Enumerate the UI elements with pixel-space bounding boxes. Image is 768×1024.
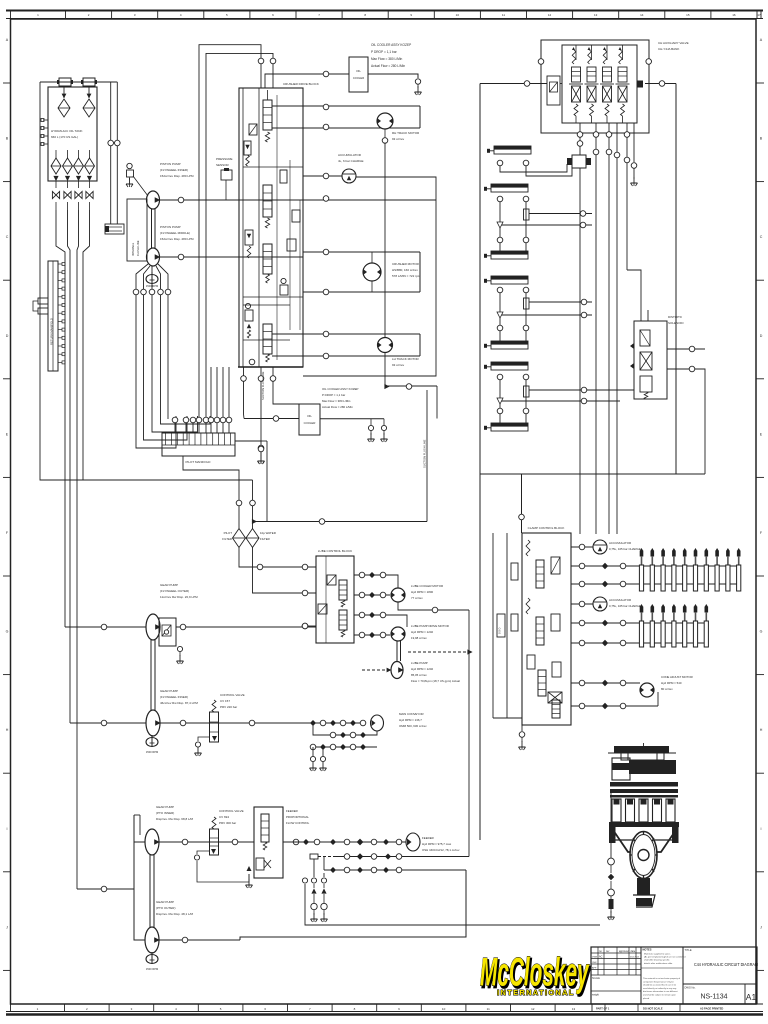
wire: feeder drive rows bbox=[283, 839, 406, 846]
svg-text:DWN: DWN bbox=[592, 957, 598, 959]
wire: distop block feeds bbox=[627, 270, 705, 474]
clamp cylinder row 2 bbox=[639, 604, 708, 647]
svg-text:LH TRACK MOTOR: LH TRACK MOTOR bbox=[392, 357, 420, 361]
solenoid S1 bbox=[249, 124, 257, 135]
wire: clamp block supply drop bbox=[519, 474, 525, 533]
engine speed bell 1500 RPM bbox=[146, 272, 158, 288]
wire: PTO suction loop bbox=[77, 815, 145, 940]
svg-text:H: H bbox=[760, 728, 763, 732]
title block bbox=[591, 947, 757, 1004]
svg-text:LUBE COOLER MOTOR: LUBE COOLER MOTOR bbox=[411, 584, 443, 588]
svg-text:OIL: OIL bbox=[307, 414, 312, 418]
svg-text:PROPORTIONAL: PROPORTIONAL bbox=[286, 815, 309, 819]
svg-text:13: 13 bbox=[594, 13, 598, 17]
svg-text:12: 12 bbox=[548, 13, 552, 17]
svg-text:Hyd RPM = 1800: Hyd RPM = 1800 bbox=[411, 590, 433, 594]
svg-text:Hyd RPM = 1240: Hyd RPM = 1240 bbox=[411, 667, 433, 671]
svg-text:Hyd RPM = 136,7: Hyd RPM = 136,7 bbox=[399, 718, 422, 722]
notes column bbox=[641, 948, 686, 1000]
svg-text:DWG No.: DWG No. bbox=[685, 986, 696, 990]
svg-text:INTERNAL: INTERNAL bbox=[131, 242, 135, 256]
svg-text:OIL: OIL bbox=[356, 69, 361, 73]
feeder motor M8 bbox=[406, 833, 460, 852]
suction filter F2 bbox=[83, 87, 95, 117]
svg-text:COOLER: COOLER bbox=[353, 76, 364, 80]
wire: crusher lube chain bbox=[608, 790, 615, 920]
drain below bank bbox=[631, 177, 638, 186]
svg-text:shall offer drawing specific: shall offer drawing specific bbox=[644, 959, 671, 962]
svg-text:152cc/rev Disp. 280 LPM: 152cc/rev Disp. 280 LPM bbox=[160, 237, 194, 241]
gear pump P4 (flywheel inner) bbox=[146, 689, 198, 736]
svg-text:A3 PAGE PRINTED: A3 PAGE PRINTED bbox=[700, 1007, 723, 1011]
svg-text:46cc/rev Rw Disp. 87,4 LPM: 46cc/rev Rw Disp. 87,4 LPM bbox=[160, 701, 198, 705]
svg-text:(FLYWHEEL INNER): (FLYWHEEL INNER) bbox=[160, 168, 188, 172]
drain below manifold bbox=[258, 455, 265, 464]
svg-text:C: C bbox=[6, 235, 9, 239]
svg-text:used directly or indirectly in: used directly or indirectly in any way bbox=[643, 987, 677, 990]
svg-text:placed: placed bbox=[643, 998, 650, 1000]
distop solenoid block bbox=[634, 315, 684, 399]
left margin zone ticks bbox=[3, 38, 11, 970]
lube pump P5 bbox=[391, 641, 460, 683]
bank valve unit 1 bbox=[569, 45, 583, 123]
gear pump P7 (PTO outer) bbox=[145, 900, 193, 953]
svg-text:PART OF 1: PART OF 1 bbox=[596, 1007, 610, 1011]
title block bottom strip bbox=[592, 1004, 763, 1012]
wire: manifold to filters bbox=[183, 456, 257, 529]
wire: bank outlet drops bbox=[577, 123, 637, 534]
svg-text:DO NOT SCALE: DO NOT SCALE bbox=[643, 1007, 663, 1011]
relief valve RV1 bbox=[244, 141, 251, 166]
svg-text:weight: weight bbox=[592, 994, 599, 997]
drive block inner lines bbox=[243, 95, 303, 360]
svg-text:(PTO OUTER): (PTO OUTER) bbox=[156, 906, 175, 910]
svg-text:19,98 cc/rev: 19,98 cc/rev bbox=[411, 636, 427, 640]
feeder proportional flow control block bbox=[254, 807, 310, 878]
hopper cylinder right bbox=[484, 276, 529, 293]
pump shaft coupling bbox=[152, 209, 156, 248]
svg-text:LUBE PUMP: LUBE PUMP bbox=[411, 661, 428, 665]
svg-text:OSH 160CC2/12, 78,1 cc/rev: OSH 160CC2/12, 78,1 cc/rev bbox=[422, 848, 460, 852]
svg-text:COOLER: COOLER bbox=[304, 421, 316, 425]
lube pump drive motor M5 bbox=[390, 624, 449, 641]
svg-text:10: 10 bbox=[456, 13, 460, 17]
svg-text:10μ WATER: 10μ WATER bbox=[260, 531, 276, 535]
drains at cooler 2 bbox=[368, 433, 388, 442]
wire: lube motor return bbox=[398, 602, 473, 857]
tail conveyor cylinder bbox=[484, 408, 529, 431]
engine bell below P4 bbox=[146, 735, 158, 754]
svg-text:80 cc/rev: 80 cc/rev bbox=[661, 687, 673, 691]
svg-text:PILOT: PILOT bbox=[224, 531, 233, 535]
lube cooler motor M4 bbox=[390, 575, 443, 627]
svg-text:13: 13 bbox=[572, 1007, 576, 1011]
wire: P3 outlet bbox=[176, 623, 316, 630]
svg-text:OIL COOLER ASSY KOZEP: OIL COOLER ASSY KOZEP bbox=[322, 387, 359, 391]
relief arrow near feeder block bbox=[246, 866, 253, 888]
lube valve 2 bbox=[318, 604, 347, 637]
svg-text:Max Flow = 380 L/Min: Max Flow = 380 L/Min bbox=[371, 57, 402, 61]
svg-text:RH TRACK MOTOR: RH TRACK MOTOR bbox=[392, 131, 420, 135]
wire: filters to lube block bbox=[239, 548, 316, 596]
svg-text:CLAMP CONTROL BLOCK: CLAMP CONTROL BLOCK bbox=[528, 526, 565, 530]
svg-text:FILTER: FILTER bbox=[222, 537, 232, 541]
tank drain ball valves bbox=[52, 181, 93, 210]
grizzly pair bridge bbox=[497, 293, 592, 341]
svg-text:GEAR PUMP: GEAR PUMP bbox=[156, 900, 174, 904]
svg-text:GEAR PUMP: GEAR PUMP bbox=[160, 689, 178, 693]
RH track motor circuit bbox=[272, 104, 420, 130]
drain symbol below port bbox=[258, 455, 265, 464]
bank pilot valve bbox=[547, 76, 560, 105]
svg-text:SUCTION FLUSH LINE: SUCTION FLUSH LINE bbox=[261, 371, 265, 400]
wire: clamp block bottom drain bbox=[519, 725, 526, 750]
wire: conveyor check valve rows bbox=[310, 720, 377, 762]
svg-text:P DROP = 1,1 bar: P DROP = 1,1 bar bbox=[322, 393, 345, 397]
wire: cooler 1 outlet bbox=[368, 74, 422, 95]
pump shaft P6-P7 bbox=[150, 854, 154, 928]
svg-text:FEEDER: FEEDER bbox=[286, 809, 298, 813]
svg-text:I: I bbox=[7, 827, 8, 831]
gear pump P6 (PTO inner) bbox=[145, 805, 193, 855]
right margin zone ticks bbox=[756, 38, 764, 970]
svg-text:FILTER: FILTER bbox=[260, 537, 270, 541]
svg-text:1500 RPM: 1500 RPM bbox=[146, 967, 158, 971]
tank breather fitting 1 bbox=[57, 78, 73, 86]
wire: clamp rows to cylinders bbox=[571, 563, 740, 646]
auxiliary valve bank body bbox=[562, 45, 637, 123]
tank breather fitting 2 bbox=[81, 78, 97, 86]
McCloskey International logo bbox=[480, 949, 592, 997]
wire: cooler feed risers bbox=[199, 45, 349, 417]
svg-text:Actual Flow = 280 L/Min: Actual Flow = 280 L/Min bbox=[322, 405, 353, 409]
svg-text:and shall be subject to remain: and shall be subject to remain upon bbox=[643, 994, 677, 997]
svg-text:RETURN MANIFOLD: RETURN MANIFOLD bbox=[50, 318, 54, 345]
svg-text:Hyd RPM = 975,7 max: Hyd RPM = 975,7 max bbox=[422, 842, 452, 846]
svg-text:10: 10 bbox=[442, 1007, 446, 1011]
valve V4 in drive block bbox=[263, 324, 272, 362]
svg-text:NS-1134: NS-1134 bbox=[700, 994, 727, 1001]
P1 case drain gauge bbox=[126, 163, 148, 196]
svg-text:93 cc/rev: 93 cc/rev bbox=[392, 363, 405, 367]
svg-text:660 L (170 US GAL): 660 L (170 US GAL) bbox=[51, 135, 78, 139]
wire: suction flush vertical bbox=[423, 390, 428, 522]
svg-text:disclosure information to use: disclosure information to use different bbox=[643, 990, 678, 993]
svg-text:PRESSURE: PRESSURE bbox=[216, 157, 233, 161]
valve V2 in drive block bbox=[263, 170, 287, 228]
RH track motor M1 bbox=[377, 113, 420, 143]
svg-text:SCALE: SCALE bbox=[592, 977, 600, 980]
cone adjust motor M7 bbox=[571, 675, 693, 709]
svg-text:11cc/rev Rw Disp. 20,9 LPM: 11cc/rev Rw Disp. 20,9 LPM bbox=[160, 595, 198, 599]
svg-text:16: 16 bbox=[732, 13, 736, 17]
svg-text:CRUSHER DRIVE BLOCK: CRUSHER DRIVE BLOCK bbox=[283, 82, 319, 86]
svg-text:P DROP = 1,1 bar: P DROP = 1,1 bar bbox=[371, 50, 398, 54]
svg-text:(FLYWHEEL MIDDLE): (FLYWHEEL MIDDLE) bbox=[160, 231, 190, 235]
wire: bank pilot supply line bbox=[480, 59, 676, 88]
return manifold inlet fittings bbox=[33, 298, 48, 314]
clamp block left ports bbox=[497, 563, 518, 637]
svg-text:ACCUMULATOR: ACCUMULATOR bbox=[609, 598, 631, 602]
relief valve RV3 bbox=[245, 303, 253, 338]
svg-text:Disp/rev. Rw Disp. 48,1 L/M: Disp/rev. Rw Disp. 48,1 L/M bbox=[156, 912, 193, 916]
svg-text:PISTON PUMP: PISTON PUMP bbox=[160, 162, 181, 166]
svg-text:date: date bbox=[631, 950, 636, 953]
engine bell below P7 bbox=[146, 952, 158, 971]
control valve CV157 bbox=[195, 693, 245, 756]
wire: cooler 2 piping bbox=[244, 416, 387, 435]
svg-text:CH AUXILIARY VALVE: CH AUXILIARY VALVE bbox=[658, 41, 689, 45]
svg-text:PILOT MANIFOLD: PILOT MANIFOLD bbox=[186, 460, 212, 464]
return diffuser filters row bbox=[51, 150, 95, 181]
svg-text:J: J bbox=[6, 925, 8, 929]
wire: feeder row 2 bbox=[310, 853, 469, 859]
svg-text:11: 11 bbox=[502, 13, 505, 17]
svg-text:Disp/rev. Rw Disp. 68,8 L/M: Disp/rev. Rw Disp. 68,8 L/M bbox=[156, 817, 193, 821]
svg-text:(PTO INNER): (PTO INNER) bbox=[156, 811, 174, 815]
svg-text:component freepersonal. Only b: component freepersonal. Only be bbox=[643, 980, 675, 983]
svg-text:This material is not exclusive: This material is not exclusive property … bbox=[643, 977, 680, 980]
svg-text:1500 RPM: 1500 RPM bbox=[146, 750, 158, 754]
water filter bbox=[246, 529, 276, 548]
svg-text:85,05 cc/rev: 85,05 cc/rev bbox=[411, 673, 427, 677]
check valve block mid bbox=[280, 210, 300, 295]
P3 loading valve bbox=[159, 618, 176, 646]
wire: P2 pressure line bbox=[160, 254, 304, 260]
svg-text:H: H bbox=[6, 728, 9, 732]
svg-text:OMM 500, 630 cc/rev: OMM 500, 630 cc/rev bbox=[399, 724, 427, 728]
svg-text:HS/B80, 160 cc/rev: HS/B80, 160 cc/rev bbox=[392, 268, 418, 272]
svg-text:Materials supplied to specs: Materials supplied to specs bbox=[644, 953, 671, 956]
lube valve 1 bbox=[327, 575, 347, 607]
lube control block bbox=[316, 549, 354, 643]
svg-text:12: 12 bbox=[531, 1007, 535, 1011]
svg-text:FLUSH LINE: FLUSH LINE bbox=[136, 240, 140, 256]
svg-text:ACCUMULATOR: ACCUMULATOR bbox=[609, 541, 631, 545]
oil cooler 1 bbox=[349, 43, 411, 92]
wire: right main loop bbox=[480, 84, 705, 841]
svg-text:4L, 6 bar CHARGE: 4L, 6 bar CHARGE bbox=[338, 159, 364, 163]
svg-text:77 cc/rev: 77 cc/rev bbox=[411, 596, 423, 600]
svg-text:details after notifications of: details after notifications offer bbox=[644, 962, 673, 965]
hopper cylinder left bbox=[484, 237, 529, 259]
svg-text:DISTOP'D: DISTOP'D bbox=[668, 315, 683, 319]
LH track motor M3 bbox=[378, 338, 420, 368]
svg-text:HYDRAULIC OIL TANK: HYDRAULIC OIL TANK bbox=[51, 129, 82, 133]
clamp cylinder row 1 bbox=[639, 548, 740, 591]
svg-text:0,75L, 105 bar CHARGE: 0,75L, 105 bar CHARGE bbox=[609, 547, 641, 551]
svg-text:C44 HYDRAULIC CIRCUIT DIAGRAM: C44 HYDRAULIC CIRCUIT DIAGRAM bbox=[694, 962, 758, 967]
top ruler band bbox=[6, 11, 763, 19]
svg-text:PRV 300 bar: PRV 300 bar bbox=[219, 821, 236, 825]
svg-text:OIL COOLER ASSY KOZEP: OIL COOLER ASSY KOZEP bbox=[371, 43, 411, 47]
wire: motor drain bus bbox=[384, 143, 386, 387]
relief valve RV2 bbox=[245, 230, 253, 258]
wire: manifold outlet right bbox=[235, 441, 267, 522]
svg-text:ACCUMULATOR: ACCUMULATOR bbox=[338, 153, 362, 157]
grizzly cylinder B bbox=[484, 362, 529, 380]
svg-text:INTERNATIONAL: INTERNATIONAL bbox=[497, 988, 575, 997]
hopper pair bridge bbox=[497, 202, 592, 251]
svg-text:93 cc/rev: 93 cc/rev bbox=[392, 137, 405, 141]
suction filter F1 bbox=[58, 87, 70, 117]
svg-text:15: 15 bbox=[686, 13, 690, 17]
wire: P3 suction bbox=[65, 624, 146, 630]
svg-text:APP: APP bbox=[592, 967, 597, 970]
hopper lock cylinder bbox=[484, 184, 529, 202]
main conveyor motor M6 bbox=[371, 712, 428, 731]
tail pair bridge bbox=[497, 380, 634, 423]
svg-text:CV 694: CV 694 bbox=[219, 815, 229, 819]
wire: lube pump suction dashed bbox=[362, 652, 469, 672]
svg-text:C: C bbox=[760, 235, 763, 239]
svg-text:GEAR PUMP: GEAR PUMP bbox=[160, 583, 178, 587]
svg-text:578 L/MIN = 722 rpm: 578 L/MIN = 722 rpm bbox=[392, 274, 421, 278]
lube outlet rows bbox=[354, 572, 390, 638]
wire: drive block bottom drops bbox=[241, 367, 299, 455]
piston pump P2 (flywheel middle) bbox=[147, 225, 195, 266]
accumulator A1 bbox=[303, 153, 364, 183]
svg-text:CRUSHER MOTOR: CRUSHER MOTOR bbox=[392, 262, 420, 266]
svg-text:CV 157: CV 157 bbox=[220, 699, 230, 703]
valve V1 in drive block bbox=[263, 90, 272, 142]
svg-text:D: D bbox=[760, 334, 763, 338]
hydraulic oil tank bbox=[48, 87, 97, 181]
svg-text:B B O: B B O bbox=[499, 627, 502, 634]
wire: cooler return riser bbox=[320, 384, 437, 419]
accumulator A3 bbox=[571, 597, 641, 611]
svg-text:CH-Y4JA BANK: CH-Y4JA BANK bbox=[658, 47, 679, 51]
crusher machine side view bbox=[608, 743, 679, 907]
svg-text:0,75L, 105 bar CHARGE: 0,75L, 105 bar CHARGE bbox=[609, 604, 641, 608]
bank valve unit 4 bbox=[616, 45, 630, 123]
svg-text:152cc/rev Disp. 280 LPM: 152cc/rev Disp. 280 LPM bbox=[160, 174, 194, 178]
svg-text:J: J bbox=[760, 925, 762, 929]
flush line fitting bbox=[105, 224, 124, 234]
svg-text:CONTROL VALVE: CONTROL VALVE bbox=[220, 693, 245, 697]
svg-text:G: G bbox=[760, 630, 763, 634]
wire: tank left supply line bbox=[40, 82, 253, 480]
LH track motor circuit bbox=[249, 331, 420, 365]
svg-text:should be accessed that it can: should be accessed that it can in be bbox=[643, 984, 677, 987]
svg-text:17: 17 bbox=[757, 13, 761, 17]
svg-text:FLOW CONTROL: FLOW CONTROL bbox=[286, 821, 310, 825]
pressure sensor bbox=[216, 157, 233, 200]
auxiliary valve bank outer loop bbox=[541, 40, 689, 133]
grizzly cylinder A bbox=[484, 325, 529, 349]
wire: P4 suction bbox=[70, 720, 146, 726]
wire: wedge cylinder to solenoid bbox=[500, 164, 572, 176]
svg-text:CHK: CHK bbox=[592, 962, 597, 964]
internal flush line box bbox=[127, 199, 147, 261]
piston pump P1 (flywheel inner) bbox=[147, 162, 195, 209]
wire: P4 pressure line (main conveyor) bbox=[160, 720, 365, 726]
control valve CV694 bbox=[194, 809, 249, 882]
svg-text:(FLYWHEEL OUTER): (FLYWHEEL OUTER) bbox=[160, 589, 189, 593]
gear pump P3 (flywheel outer) bbox=[146, 583, 198, 640]
svg-text:04-17-13: 04-17-13 bbox=[630, 957, 640, 959]
vertical flush line text bbox=[261, 305, 265, 442]
svg-text:14: 14 bbox=[640, 13, 644, 17]
svg-text:(As per template) ItalyCil are: (As per template) ItalyCil are not combi… bbox=[644, 956, 686, 959]
wire: pilot bundle from drive block to manifold bbox=[172, 367, 232, 433]
wire: P6 pressure line (feeder) bbox=[159, 839, 299, 845]
bank valve unit 3 bbox=[600, 45, 614, 123]
svg-text:SUCTION FLUSH LINE: SUCTION FLUSH LINE bbox=[423, 439, 427, 468]
crusher drive block bbox=[239, 82, 319, 367]
oil cooler 2 bbox=[299, 387, 359, 435]
svg-text:CONE ADJUST MOTOR: CONE ADJUST MOTOR bbox=[661, 675, 693, 679]
wire: case drain loop bbox=[303, 177, 436, 376]
clamp block interior valves bbox=[526, 540, 562, 718]
svg-text:approved: approved bbox=[619, 950, 630, 953]
svg-text:D: D bbox=[6, 334, 9, 338]
svg-text:FEEDER: FEEDER bbox=[422, 836, 434, 840]
svg-text:SENSOR: SENSOR bbox=[216, 163, 230, 167]
wire: P1 pressure line bbox=[160, 196, 437, 203]
pump shaft P3-P4 bbox=[151, 640, 155, 711]
svg-text:NOTES: NOTES bbox=[643, 948, 652, 952]
return manifold bbox=[48, 261, 65, 371]
crusher motor M2 bbox=[363, 252, 421, 292]
solenoid valve SV2 bbox=[567, 141, 591, 534]
revision table bbox=[591, 947, 641, 997]
svg-text:Flow = 70,8Lpm (18,7 US gpm) A: Flow = 70,8Lpm (18,7 US gpm) Actual bbox=[411, 679, 460, 683]
svg-text:11: 11 bbox=[487, 1007, 490, 1011]
title area bbox=[683, 948, 758, 1004]
wedge lock cylinder bbox=[487, 146, 531, 166]
svg-text:AC: AC bbox=[599, 956, 603, 959]
svg-text:PRV 220 bar: PRV 220 bar bbox=[220, 705, 237, 709]
wire: tank return risers bbox=[108, 82, 120, 224]
svg-text:Hyd RPM = 1240: Hyd RPM = 1240 bbox=[411, 630, 433, 634]
bank valve unit 2 bbox=[585, 45, 599, 123]
clamp control block bbox=[493, 526, 571, 725]
svg-text:CONTROL VALVE: CONTROL VALVE bbox=[219, 809, 244, 813]
drains below conveyor rows bbox=[310, 762, 327, 771]
pilot filter bbox=[222, 529, 245, 548]
pilot manifold bbox=[162, 433, 235, 464]
svg-text:GEAR PUMP: GEAR PUMP bbox=[156, 805, 174, 809]
accumulator A2 bbox=[571, 540, 641, 554]
svg-text:A1: A1 bbox=[746, 992, 757, 1002]
wire: lube inlet stub bbox=[302, 623, 316, 629]
wire: feeder test drops bbox=[302, 842, 600, 925]
wire: pilot line to clamp circuit bbox=[253, 519, 428, 525]
bottom ruler band bbox=[6, 1004, 763, 1015]
svg-text:TITLE: TITLE bbox=[685, 948, 692, 952]
svg-text:Max Flow = 380 L/Min: Max Flow = 380 L/Min bbox=[322, 399, 351, 403]
wire: P7 pressure line bbox=[159, 870, 466, 943]
wire: feeder row 3 bbox=[324, 857, 466, 874]
svg-text:G: G bbox=[6, 630, 9, 634]
svg-text:PISTON PUMP: PISTON PUMP bbox=[160, 225, 181, 229]
svg-text:I: I bbox=[761, 827, 762, 831]
crusher motor circuit bbox=[303, 249, 420, 295]
wire: tank drain bus lines bbox=[56, 210, 90, 889]
svg-text:MAIN CONVEYOR: MAIN CONVEYOR bbox=[399, 712, 424, 716]
drive block bottom edge bbox=[238, 366, 303, 368]
valve V3 in drive block bbox=[263, 244, 272, 283]
wire: P2 outlet fan to pilot manifold bbox=[133, 264, 210, 448]
tank level sensor ticks bbox=[41, 119, 48, 146]
svg-text:Hyd RPM = 540: Hyd RPM = 540 bbox=[661, 681, 682, 685]
svg-text:(FLYWHEEL INNER): (FLYWHEEL INNER) bbox=[160, 695, 188, 699]
P3 drain bbox=[177, 646, 184, 664]
svg-text:Actual Flow = 280 L/Min: Actual Flow = 280 L/Min bbox=[371, 64, 405, 68]
svg-text:LUBE PUMP DRIVE MOTOR: LUBE PUMP DRIVE MOTOR bbox=[411, 624, 449, 628]
svg-text:LUBE CONTROL BLOCK: LUBE CONTROL BLOCK bbox=[318, 549, 352, 553]
